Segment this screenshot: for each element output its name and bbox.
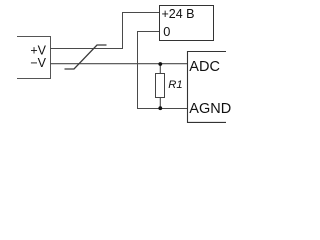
svg-text:−V: −V [30, 56, 46, 70]
svg-text:0: 0 [163, 24, 170, 39]
svg-text:ADC: ADC [189, 59, 220, 75]
svg-text:AGND: AGND [189, 101, 231, 117]
svg-text:R1: R1 [168, 79, 182, 91]
svg-text:+24 В: +24 В [162, 7, 195, 21]
